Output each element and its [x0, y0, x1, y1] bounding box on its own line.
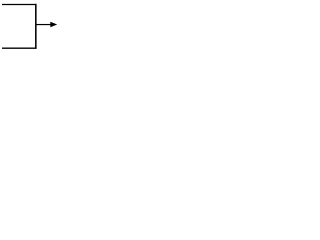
- box top edge: [2, 3, 37, 5]
- wire (arrow shaft): [37, 24, 52, 26]
- box bottom edge: [2, 47, 37, 49]
- box right edge: [35, 4, 37, 49]
- arrowhead: [50, 22, 57, 28]
